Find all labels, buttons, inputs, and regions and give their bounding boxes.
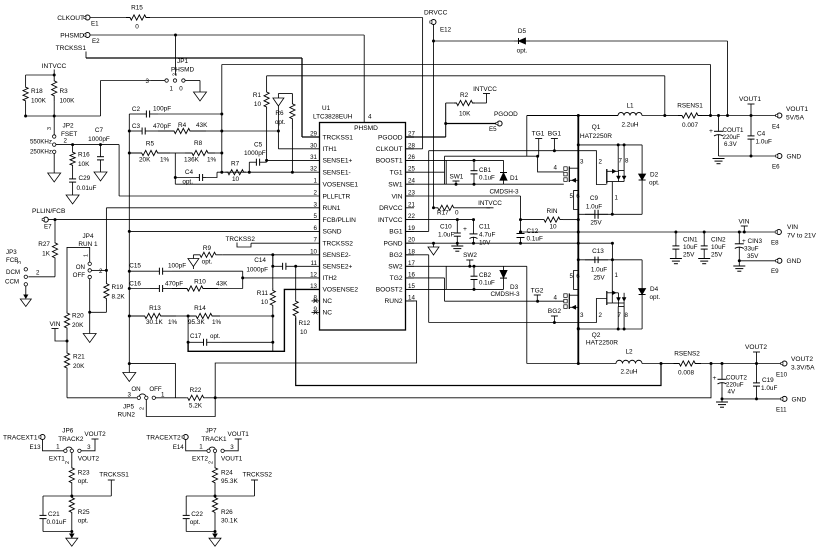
svg-text:BG1: BG1 [548, 131, 562, 138]
wire JP3 to ground [25, 286, 27, 298]
svg-text:2: 2 [64, 138, 68, 145]
wire Q2 pins 5 6 bracket [574, 271, 579, 290]
svg-text:2: 2 [36, 270, 40, 277]
svg-text:1%: 1% [207, 157, 217, 164]
svg-text:VIN: VIN [739, 219, 750, 226]
svg-text:RUN1: RUN1 [323, 205, 341, 212]
ground at SGND rail [128, 364, 130, 373]
svg-text:R9: R9 [203, 245, 212, 252]
svg-text:3: 3 [230, 444, 234, 451]
svg-text:2: 2 [314, 190, 318, 197]
svg-text:E8: E8 [771, 240, 779, 247]
svg-text:30.1K: 30.1K [221, 518, 238, 525]
svg-text:C16: C16 [129, 281, 141, 288]
svg-text:0: 0 [179, 86, 183, 93]
svg-text:0.007: 0.007 [682, 122, 698, 129]
wire R12 to sense line [296, 317, 661, 385]
svg-text:E14: E14 [173, 444, 185, 451]
resistor R12 10 [295, 266, 297, 300]
svg-text:R25: R25 [78, 509, 90, 516]
svg-text:43K: 43K [196, 122, 208, 129]
svg-text:25V: 25V [590, 220, 602, 227]
wire PGND pin 20 to ground [406, 242, 613, 244]
resistor R6 opt [278, 93, 292, 95]
svg-text:JP7: JP7 [205, 428, 216, 435]
svg-text:JP5: JP5 [123, 404, 134, 411]
svg-text:3: 3 [580, 159, 584, 166]
svg-text:10K: 10K [459, 111, 471, 118]
ground at C7 [94, 172, 107, 181]
resistor R2 10K [445, 103, 447, 137]
svg-text:1: 1 [615, 272, 619, 279]
svg-text:CMDSH-3: CMDSH-3 [489, 189, 519, 196]
resistor R9 opt with arrow [192, 255, 194, 269]
svg-text:C14: C14 [254, 257, 266, 264]
capacitor C19 1.0uF [756, 364, 758, 379]
svg-text:1.0uF: 1.0uF [438, 232, 454, 239]
capacitor COUT2 220uF 4V [721, 364, 723, 376]
capacitor C16 470pF [128, 287, 131, 290]
svg-text:R18: R18 [31, 88, 43, 95]
wire SW2 row [406, 265, 527, 267]
svg-text:8: 8 [625, 312, 629, 319]
svg-text:4.7uF: 4.7uF [479, 232, 495, 239]
wire INTVCC to R18 R3 [53, 70, 55, 76]
svg-text:PGND: PGND [383, 241, 402, 248]
ground at COUT1 [713, 158, 725, 160]
svg-text:SGND: SGND [323, 229, 342, 236]
resistor R16 10K [72, 145, 74, 152]
svg-text:R13: R13 [149, 305, 161, 312]
svg-text:1.0uF: 1.0uF [591, 267, 607, 274]
svg-text:CLKOUT: CLKOUT [57, 15, 84, 22]
ground at PGND [433, 243, 435, 247]
wire SW1 node to L1 [527, 115, 618, 117]
svg-text:7: 7 [619, 158, 623, 165]
svg-text:PLLFLTR: PLLFLTR [323, 193, 351, 200]
svg-text:INTVCC: INTVCC [378, 217, 403, 224]
resistor R5 20K 1% [129, 150, 170, 155]
resistor R19 8.2K [105, 208, 107, 281]
svg-text:HAT2250R: HAT2250R [586, 340, 618, 347]
svg-text:1.0uF: 1.0uF [586, 204, 602, 211]
svg-text:16: 16 [408, 271, 415, 278]
svg-text:CCM: CCM [5, 278, 19, 285]
svg-text:20K: 20K [73, 363, 85, 370]
svg-text:R22: R22 [190, 387, 202, 394]
ground below JP4 [83, 334, 96, 343]
svg-text:35V: 35V [747, 253, 759, 260]
svg-text:8: 8 [314, 294, 318, 301]
svg-text:L2: L2 [625, 349, 633, 356]
resistor RSENS1 0.007 [665, 115, 678, 117]
svg-text:25: 25 [408, 166, 415, 173]
svg-text:RUN2: RUN2 [385, 298, 403, 305]
wire VOSENSE1 to pin 1 [175, 183, 319, 185]
svg-text:COUT1: COUT1 [723, 127, 745, 134]
svg-text:1: 1 [169, 86, 173, 93]
capacitor COUT1 220uF 6.3V [718, 116, 720, 128]
capacitor C21 0.01uF [43, 495, 72, 497]
svg-text:6: 6 [576, 273, 580, 280]
svg-text:10: 10 [549, 224, 557, 231]
svg-text:18: 18 [408, 248, 415, 255]
svg-text:INTVCC: INTVCC [473, 86, 497, 93]
svg-text:100pF: 100pF [153, 106, 171, 113]
resistor R20 20K [64, 311, 69, 330]
svg-text:JP3: JP3 [6, 249, 17, 256]
svg-text:BOOST1: BOOST1 [376, 158, 403, 165]
svg-text:PHSMD: PHSMD [171, 67, 194, 74]
resistor R11 10 [272, 255, 274, 287]
svg-text:0.008: 0.008 [678, 370, 694, 377]
svg-text:CMDSH-3: CMDSH-3 [490, 291, 520, 298]
svg-text:4: 4 [368, 114, 372, 121]
svg-text:25V: 25V [683, 252, 695, 259]
svg-text:TG2: TG2 [390, 275, 403, 282]
resistor R14 95.3K 1% [188, 313, 220, 318]
wire Q2 boost bottom rail [578, 328, 642, 330]
node VOUT1 terminal E4 [777, 113, 782, 118]
svg-text:CIN2: CIN2 [711, 237, 726, 244]
wire Q1 boost top rail [578, 144, 642, 146]
svg-text:21: 21 [408, 201, 415, 208]
svg-text:D5: D5 [518, 28, 527, 35]
svg-text:20K: 20K [139, 157, 151, 164]
svg-text:opt.: opt. [78, 518, 89, 525]
svg-text:10: 10 [254, 101, 262, 108]
node VIN terminal E8 [776, 230, 781, 235]
wire FSET to PLLFLTR pin 2 [119, 195, 319, 197]
svg-text:R24: R24 [221, 470, 233, 477]
svg-text:TRACK1: TRACK1 [201, 436, 227, 443]
wire Q1 bottom rail [578, 213, 642, 215]
svg-text:10: 10 [232, 176, 240, 183]
svg-text:7V to 21V: 7V to 21V [787, 233, 817, 240]
capacitor CIN3 33uF 35V [738, 232, 740, 240]
svg-text:C5: C5 [254, 142, 263, 149]
svg-text:HAT2250R: HAT2250R [580, 133, 612, 140]
svg-text:10: 10 [261, 299, 269, 306]
diode D1 CMDSH-3 [503, 160, 505, 172]
wire ITH1 branch [222, 130, 279, 132]
svg-text:R23: R23 [78, 470, 90, 477]
svg-text:1.0uF: 1.0uF [756, 139, 772, 146]
wire comp net vertical [221, 65, 223, 173]
capacitor C17 opt [187, 316, 189, 342]
capacitor C4out 1.0uF [750, 116, 752, 133]
wire VOUT2 sense long wire [215, 364, 711, 398]
wire SGND rail to ground [128, 230, 131, 233]
svg-text:R7: R7 [231, 161, 240, 168]
svg-text:1: 1 [314, 178, 318, 185]
svg-text:3: 3 [87, 444, 91, 451]
svg-text:E9: E9 [771, 268, 779, 275]
svg-text:C13: C13 [592, 248, 604, 255]
diode D5 opt [434, 40, 515, 42]
svg-text:1%: 1% [160, 157, 170, 164]
wire BOOST1 row to C8 D1 [406, 159, 504, 161]
svg-text:25V: 25V [593, 275, 605, 282]
svg-text:JP1: JP1 [177, 58, 188, 65]
resistor R10 43K [172, 286, 218, 291]
svg-text:R2: R2 [460, 92, 469, 99]
svg-text:CIN1: CIN1 [683, 237, 698, 244]
wire JP5 to R22 [156, 397, 187, 399]
svg-text:CB2: CB2 [479, 272, 492, 279]
wire D5 to VOUT1 [530, 40, 728, 42]
wire Q1 pins 5 6 bracket [574, 191, 579, 210]
capacitor C22 opt. [186, 495, 215, 497]
svg-text:2.2uH: 2.2uH [621, 122, 638, 129]
resistor R17 0 [432, 206, 435, 209]
wire TG2 from pin 16 [406, 277, 445, 279]
wire Q1 drain rail [577, 116, 579, 233]
capacitor C5 1000pF [248, 162, 250, 172]
svg-text:1: 1 [615, 195, 619, 202]
svg-text:VOUT1: VOUT1 [228, 431, 250, 438]
svg-text:VOUT2: VOUT2 [78, 456, 100, 463]
wire TRCKSS2 to pin 7 [251, 242, 320, 244]
wire VOSENSE2 from pin 13 [188, 289, 319, 351]
wire R21 to JP5 pin 3 [66, 370, 68, 398]
svg-text:R15: R15 [131, 5, 143, 12]
capacitor CIN1 10uF 25V [675, 232, 677, 242]
svg-text:TRCKSS2: TRCKSS2 [243, 472, 273, 479]
wire ITH2 to pin 12 [243, 277, 320, 279]
svg-text:1: 1 [84, 254, 90, 257]
svg-text:250KHz: 250KHz [30, 149, 52, 156]
svg-text:JP2: JP2 [63, 123, 74, 130]
capacitor C10 1.0uF [456, 220, 458, 226]
ground at CIN1 [670, 258, 682, 260]
svg-text:R17: R17 [437, 210, 449, 217]
svg-text:R26: R26 [221, 509, 233, 516]
capacitor C12 0.1uF [520, 220, 522, 234]
svg-text:DRVCC: DRVCC [379, 205, 403, 212]
svg-text:EXT2: EXT2 [192, 456, 208, 463]
ground at JP1 [194, 92, 207, 101]
svg-text:20: 20 [408, 237, 415, 244]
svg-text:0: 0 [135, 24, 139, 31]
svg-text:E1: E1 [91, 21, 99, 28]
wire GND E6 row [719, 155, 780, 157]
wire FSET net [56, 144, 119, 146]
svg-text:DCM: DCM [6, 269, 20, 276]
svg-text:C4: C4 [185, 169, 194, 176]
svg-text:+: + [709, 128, 713, 135]
svg-text:VIN: VIN [392, 193, 403, 200]
svg-text:5: 5 [314, 213, 318, 220]
wire TG1 from pin 25 [406, 171, 445, 173]
svg-text:95.3K: 95.3K [221, 478, 238, 485]
wire SENSE1- row [217, 171, 320, 173]
svg-text:13: 13 [310, 283, 317, 290]
svg-text:R5: R5 [146, 141, 155, 148]
svg-text:5.2K: 5.2K [189, 403, 203, 410]
svg-text:C4: C4 [757, 131, 766, 138]
svg-text:TG1: TG1 [390, 170, 403, 177]
wire PHSMD to pin 4 [90, 34, 364, 36]
svg-text:D4: D4 [650, 286, 659, 293]
svg-text:22: 22 [408, 213, 415, 220]
svg-text:550KHz: 550KHz [30, 138, 52, 145]
svg-text:TG2: TG2 [531, 288, 544, 295]
capacitor C2 100pF [129, 113, 138, 115]
svg-text:10K: 10K [78, 161, 90, 168]
resistor R1 10 [266, 76, 268, 90]
pin 8 NC [312, 300, 320, 302]
wire R18 R3 bottoms to JP1 pin 3 [25, 102, 27, 116]
wire JP4 pin3 to ground [89, 279, 91, 313]
wire GND E11 row [722, 398, 785, 400]
diode D2 opt [641, 145, 643, 170]
wire PGOOD row [406, 136, 446, 138]
svg-text:6.3V: 6.3V [724, 141, 738, 148]
resistor RIN 10 [519, 218, 522, 221]
svg-text:10: 10 [300, 329, 308, 336]
svg-text:TRCKSS1: TRCKSS1 [323, 134, 354, 141]
svg-text:95.3K: 95.3K [188, 319, 205, 326]
op-amp U1 LTC3828EUH [320, 123, 406, 331]
wire SGND left rail [128, 114, 130, 364]
svg-text:1000pF: 1000pF [246, 267, 268, 274]
svg-text:1.0uF: 1.0uF [761, 385, 777, 392]
svg-text:0.01uF: 0.01uF [47, 519, 67, 526]
svg-text:SENSE2+: SENSE2+ [323, 264, 353, 271]
svg-text:6: 6 [314, 225, 318, 232]
svg-text:8.2K: 8.2K [112, 294, 126, 301]
svg-text:Q1: Q1 [592, 124, 601, 131]
svg-text:E13: E13 [30, 444, 42, 451]
svg-text:SW1: SW1 [388, 182, 403, 189]
svg-text:17: 17 [408, 260, 415, 267]
svg-text:28: 28 [408, 142, 415, 149]
svg-text:25V: 25V [711, 252, 723, 259]
wire SENSE2+ row [296, 265, 320, 267]
wire VOUT1 node [699, 115, 779, 117]
svg-text:opt.: opt. [78, 478, 89, 485]
svg-text:PGOOD: PGOOD [378, 134, 403, 141]
svg-text:1: 1 [56, 443, 60, 450]
svg-text:2: 2 [140, 407, 146, 410]
ground below R26 [214, 532, 216, 539]
svg-text:opt.: opt. [649, 180, 660, 187]
svg-text:R1: R1 [253, 92, 262, 99]
svg-text:+: + [463, 226, 467, 233]
ground at CIN3 [738, 261, 740, 266]
ground at CIN2 [698, 258, 710, 260]
svg-text:30.1K: 30.1K [146, 319, 163, 326]
svg-text:2: 2 [99, 268, 103, 275]
capacitor C11 4.7uF 10V [473, 220, 475, 228]
svg-text:5: 5 [570, 273, 574, 280]
svg-text:23: 23 [408, 190, 415, 197]
svg-text:5V/5A: 5V/5A [786, 115, 805, 122]
resistor R8 136K 1% [185, 150, 215, 155]
svg-text:opt.: opt. [650, 294, 661, 301]
svg-text:E11: E11 [776, 407, 787, 414]
svg-text:C21: C21 [48, 511, 60, 518]
svg-text:31: 31 [310, 154, 317, 161]
svg-text:11: 11 [311, 260, 318, 267]
resistor R21 20K [64, 351, 69, 370]
wire DRVCC rail [433, 25, 435, 208]
svg-text:C7: C7 [95, 127, 104, 134]
svg-text:PGOOD: PGOOD [494, 111, 518, 118]
ground at COUT2 [721, 399, 723, 402]
svg-text:1000pF: 1000pF [244, 150, 266, 157]
wire ITH1 vertical with arrow [277, 94, 279, 132]
wire R1 sense line [267, 75, 665, 77]
resistor R18 100K [25, 75, 27, 86]
svg-text:6: 6 [576, 193, 580, 200]
svg-text:C3: C3 [132, 123, 141, 130]
svg-text:ON: ON [131, 386, 140, 393]
node GND terminal E11 [782, 396, 787, 401]
capacitor C3 470pF [129, 130, 142, 132]
svg-text:136K: 136K [184, 157, 200, 164]
wire BOOST2 row to C18 D3 [406, 288, 504, 290]
capacitor CIN2 10uF 25V [703, 232, 705, 242]
svg-text:NC: NC [323, 310, 333, 317]
svg-text:TRCKSS1: TRCKSS1 [99, 472, 129, 479]
svg-text:24: 24 [408, 178, 415, 185]
svg-text:30: 30 [310, 142, 317, 149]
wire JP5 pin2 loop [146, 398, 215, 417]
svg-text:C11: C11 [479, 224, 491, 231]
svg-text:VIN: VIN [787, 224, 798, 231]
svg-text:BG1: BG1 [389, 229, 403, 236]
svg-text:C17: C17 [190, 333, 202, 340]
capacitor C14 1000pF [272, 255, 274, 266]
wire BG1 from pin 19 [406, 230, 429, 232]
svg-text:VOUT1: VOUT1 [221, 456, 243, 463]
capacitor C29 0.01uF [72, 166, 74, 179]
svg-text:SENSE1+: SENSE1+ [323, 158, 353, 165]
svg-text:3: 3 [314, 201, 318, 208]
svg-text:INTVCC: INTVCC [478, 200, 502, 207]
wire GND E9 row [739, 260, 779, 262]
svg-text:RIN: RIN [546, 208, 557, 215]
svg-text:TG1: TG1 [532, 131, 545, 138]
capacitor C18 0.1uF [445, 266, 447, 289]
ground at C29 [66, 195, 79, 204]
svg-text:1000pF: 1000pF [88, 136, 110, 143]
svg-text:OFF: OFF [73, 272, 86, 279]
wire VIN pin 23 [406, 195, 521, 197]
svg-text:E5: E5 [489, 126, 497, 133]
svg-text:opt.: opt. [210, 333, 221, 340]
svg-text:R11: R11 [257, 290, 269, 297]
svg-text:1%: 1% [212, 319, 222, 326]
svg-text:1%: 1% [168, 319, 178, 326]
svg-text:PLLIN/FCB: PLLIN/FCB [32, 208, 66, 215]
wire JP4 pin2 to R19 RUN1 [91, 269, 106, 271]
svg-text:1: 1 [199, 443, 203, 450]
svg-text:5: 5 [570, 193, 574, 200]
svg-text:ITH2: ITH2 [323, 275, 338, 282]
svg-text:R20: R20 [72, 313, 84, 320]
svg-text:ON: ON [76, 264, 85, 271]
capacitor C9 1.0uF 25V [585, 213, 595, 215]
resistor R23 opt. [71, 453, 73, 467]
svg-text:R14: R14 [194, 305, 206, 312]
svg-text:4V: 4V [728, 389, 736, 396]
svg-text:PHSMD: PHSMD [354, 125, 378, 132]
svg-text:R10: R10 [194, 279, 206, 286]
svg-text:ITH1: ITH1 [323, 146, 338, 153]
